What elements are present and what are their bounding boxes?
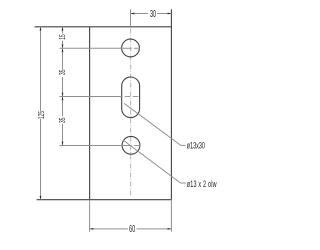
dim 125: dimension line	[40, 27, 42, 111]
extension line at top hole center	[59, 47, 131, 49]
bottom hole	[122, 136, 140, 154]
extension line at slot center	[59, 96, 121, 98]
dim 125: bottom arrow	[40, 196, 42, 200]
svg-text:ø13x30: ø13x30	[187, 140, 205, 151]
slot (oblong hole 13x30)	[122, 77, 140, 118]
dim 30: right arrow	[168, 13, 172, 15]
plate right edge plus extension up to 30-dim	[170, 9, 172, 199]
plate top edge with left extension	[35, 26, 172, 28]
short centerline dash right of slot center	[133, 96, 139, 98]
short centerline dash right of top hole center	[134, 47, 140, 49]
svg-text:35: 35	[59, 117, 67, 123]
inner dim: bottom arrow at y=145.3	[62, 142, 64, 146]
inner dim: top arrow	[62, 27, 64, 31]
dim 60: left extension line	[89, 200, 91, 232]
dim 125: top arrow	[40, 27, 42, 31]
svg-text:60: 60	[129, 223, 135, 234]
dim 60: right arrow	[168, 228, 172, 230]
centerline dashes inside slot	[125, 96, 131, 98]
short centerline dash right of bottom hole center	[134, 145, 140, 147]
extension line at bottom hole center	[59, 145, 131, 147]
dim 60: dimension line	[90, 228, 128, 230]
vertical centerline (dash-dot)	[130, 29, 132, 197]
inner dim: double arrow at y=96.7	[62, 93, 64, 97]
dim 60: right extension line	[170, 200, 172, 232]
top hole	[122, 39, 140, 57]
svg-text:125: 125	[38, 111, 46, 119]
svg-text:ø13 x 2 olw: ø13 x 2 olw	[187, 178, 217, 189]
plate left edge	[89, 27, 91, 200]
dim 30: left extension line	[130, 9, 132, 26]
inner dim line 15/35/35	[62, 27, 64, 34]
svg-text:15: 15	[59, 34, 67, 40]
dim 30: dimension line	[131, 13, 149, 15]
leader for slot label	[124, 103, 181, 145]
inner dim: double arrow at y=48	[62, 45, 64, 49]
plate bottom edge with left extension	[37, 199, 172, 201]
dim 60: left arrow	[90, 228, 94, 230]
dim 30: left arrow	[131, 13, 135, 15]
leader for holes label	[123, 140, 181, 183]
svg-text:35: 35	[59, 69, 67, 75]
svg-text:30: 30	[150, 8, 156, 19]
